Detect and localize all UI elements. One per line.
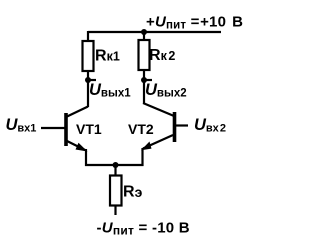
svg-text:Uвых1: Uвых1	[89, 81, 131, 100]
svg-text:Uвых2: Uвых2	[145, 81, 187, 100]
wire common emitter rail	[85, 164, 144, 166]
wire output tap 2	[144, 79, 152, 81]
wire VT1 base lead from input 1	[41, 127, 65, 129]
svg-text:Rк1: Rк1	[95, 48, 120, 65]
svg-text:Rэ: Rэ	[123, 184, 143, 201]
svg-text:Rк2: Rк2	[149, 47, 175, 64]
resistor RK1 body	[83, 41, 94, 71]
svg-text:+Uпит =+10В: +Uпит =+10В	[146, 14, 243, 32]
resistor RK2 body	[139, 40, 150, 70]
resistor RE body	[110, 176, 122, 206]
wire VT1 collector diagonal	[66, 107, 88, 118]
svg-text:VT1: VT1	[76, 121, 102, 137]
wire VT2 emitter diagonal	[143, 135, 173, 149]
svg-text:-Uпит = -10 В: -Uпит = -10 В	[97, 220, 190, 238]
wire top +V rail	[88, 31, 221, 33]
transistor VT1 base bar	[64, 113, 68, 146]
svg-text:Uвх2: Uвх2	[194, 116, 226, 135]
node Uvyh2 junction dot	[141, 77, 147, 83]
VT1 emitter arrowhead	[76, 143, 88, 152]
svg-text:Uвх1: Uвх1	[6, 116, 37, 135]
wire Re top lead	[114, 165, 116, 176]
junction dot top rail	[141, 29, 147, 35]
wire VT2 emitter vertical	[141, 148, 143, 166]
wire VT1 emitter vertical	[85, 149, 87, 166]
wire VT2 base lead from input 2	[176, 124, 188, 126]
svg-text:VT2: VT2	[128, 121, 154, 137]
wire Rk1 top lead	[87, 31, 89, 41]
node Uvyh1 junction dot	[85, 77, 91, 83]
node common emitters junction dot	[113, 162, 119, 168]
VT2 emitter arrowhead	[141, 142, 152, 151]
wire VT1 emitter diagonal	[66, 141, 85, 151]
wire Re bottom lead to -V terminal	[114, 206, 116, 216]
transistor VT2 base bar	[173, 112, 177, 142]
wire output tap 1	[88, 79, 96, 81]
wire Rk1 bottom lead to VT1 collector node	[87, 71, 89, 107]
wire VT2 collector diagonal	[143, 103, 174, 116]
wire Rk2 bottom lead to VT2 collector node	[143, 70, 145, 103]
wire Rk2 top lead	[143, 31, 145, 40]
